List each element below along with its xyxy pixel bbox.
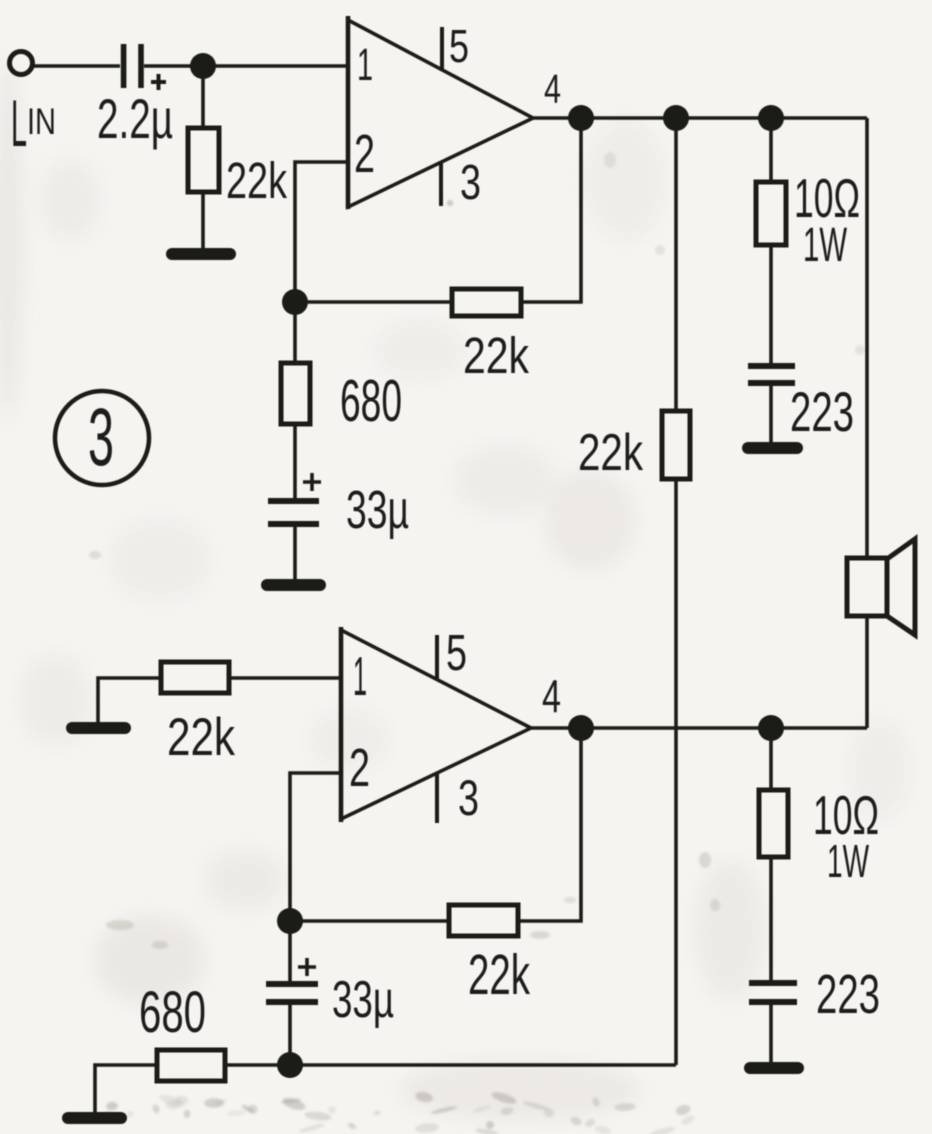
svg-text:22k: 22k bbox=[226, 152, 287, 209]
resistor R 10ohm 1W bottom bbox=[759, 790, 788, 857]
plus sign of 2.2u bbox=[151, 74, 166, 90]
svg-text:3: 3 bbox=[88, 392, 114, 483]
capacitor C 223 bottom bbox=[749, 980, 797, 1005]
vertical R 22k branch wire bottom bbox=[674, 479, 678, 1065]
ground 33u top bbox=[267, 579, 320, 591]
svg-text:1: 1 bbox=[353, 645, 367, 707]
wire ground to R22k input U2 bbox=[98, 678, 161, 722]
plus sign 33u bottom bbox=[298, 958, 316, 976]
wire node to C33u bottom bbox=[288, 921, 292, 982]
wire C33u to bottom node bbox=[288, 1005, 292, 1065]
pin 3 stub U1 bbox=[439, 162, 443, 206]
svg-text:33µ: 33µ bbox=[346, 480, 409, 540]
svg-text:680: 680 bbox=[340, 368, 402, 434]
wire 10ohm to C223 bbox=[769, 245, 773, 364]
wire node down to R 22k bbox=[201, 66, 205, 128]
svg-text:L: L bbox=[11, 86, 27, 160]
node C feedback bottom bbox=[277, 908, 303, 934]
node 22k branch top bbox=[663, 105, 689, 131]
wire speaker to bottom rail bbox=[865, 616, 869, 728]
svg-text:33µ: 33µ bbox=[332, 971, 394, 1029]
node B feedback top bbox=[282, 289, 308, 315]
wire pin2 U2 bbox=[290, 773, 341, 921]
wire R22k to pin1 U2 bbox=[229, 676, 341, 680]
right rail wire to speaker bbox=[865, 118, 869, 558]
capacitor C 2.2u bbox=[121, 44, 144, 88]
capacitor C 223 top bbox=[748, 363, 795, 386]
op-amp U1 bbox=[348, 20, 533, 207]
capacitor C 33u bottom bbox=[266, 981, 318, 1005]
svg-text:5: 5 bbox=[446, 624, 467, 681]
svg-text:4: 4 bbox=[544, 66, 561, 112]
svg-text:2: 2 bbox=[354, 124, 375, 184]
node 10ohm branch bottom bbox=[758, 715, 784, 741]
resistor R 22k vertical bbox=[662, 411, 690, 479]
wire C223 to ground bbox=[769, 386, 773, 444]
label LIN bbox=[11, 86, 56, 160]
ground 680 bottom bbox=[68, 1112, 121, 1124]
node D bottom bbox=[277, 1052, 303, 1078]
resistor R 22k feedback U2 bbox=[449, 905, 518, 936]
resistor R 22k input top bbox=[188, 128, 219, 192]
speaker LS bbox=[847, 558, 887, 616]
svg-text:IN: IN bbox=[27, 101, 56, 142]
figure number circle 3 bbox=[55, 391, 149, 485]
svg-text:3: 3 bbox=[458, 770, 479, 826]
wire ground to R680 bottom bbox=[95, 1065, 157, 1112]
svg-text:5: 5 bbox=[449, 20, 469, 72]
svg-text:22k: 22k bbox=[578, 424, 644, 482]
resistor R 680 top bbox=[281, 363, 310, 424]
wire capacitor to op-amp pin 1 bbox=[144, 64, 348, 68]
ground C223 top bbox=[748, 442, 797, 454]
capacitor C 33u top bbox=[268, 498, 319, 527]
ground C223 bottom bbox=[750, 1062, 798, 1074]
svg-text:2.2µ: 2.2µ bbox=[97, 87, 173, 150]
svg-text:22k: 22k bbox=[167, 708, 235, 767]
wire feedback to node bbox=[295, 300, 452, 304]
wire C223 to ground bottom bbox=[769, 1005, 773, 1062]
svg-text:4: 4 bbox=[542, 670, 561, 722]
output wire U1 bbox=[533, 116, 867, 120]
node 10ohm branch top bbox=[758, 105, 784, 131]
ground input U2 bbox=[72, 722, 125, 734]
svg-text:1W: 1W bbox=[827, 835, 869, 887]
output wire U2 bbox=[531, 726, 867, 730]
svg-text:2: 2 bbox=[349, 738, 370, 798]
input terminal LIN bbox=[10, 52, 33, 75]
pin 5 stub U2 bbox=[435, 635, 439, 679]
pin 3 stub U2 bbox=[435, 773, 439, 823]
node A input bbox=[190, 53, 216, 79]
node output U1 bbox=[568, 105, 594, 131]
svg-text:1W: 1W bbox=[803, 219, 847, 272]
svg-text:22k: 22k bbox=[463, 327, 529, 384]
resistor R 10ohm 1W top bbox=[756, 182, 786, 245]
svg-text:223: 223 bbox=[816, 963, 880, 1025]
pin 5 stub U1 bbox=[440, 27, 444, 71]
svg-text:223: 223 bbox=[790, 380, 854, 443]
wire R to ground bbox=[201, 192, 205, 250]
plus sign 33u top bbox=[303, 473, 321, 491]
node output U2 bbox=[568, 715, 594, 741]
resistor R 22k input U2 bbox=[161, 662, 229, 693]
op-amp U2 bbox=[341, 630, 531, 819]
feedback wire U1 bbox=[521, 118, 581, 302]
wire input to capacitor bbox=[33, 64, 120, 68]
bottom wire R680 to 22k rail bbox=[225, 1063, 676, 1067]
wire feedback to node U2 bbox=[290, 919, 449, 923]
resistor R 22k feedback top bbox=[452, 289, 521, 316]
wire top node to 10ohm bbox=[769, 118, 773, 182]
wire pin2 U1 bbox=[295, 162, 348, 302]
svg-text:3: 3 bbox=[460, 156, 481, 210]
feedback wire U2 bbox=[518, 728, 581, 921]
wire node to R680 bbox=[293, 302, 297, 363]
wire R680 to C33u bbox=[293, 424, 297, 499]
wire C33u to ground bbox=[293, 527, 297, 581]
svg-text:680: 680 bbox=[139, 980, 206, 1045]
resistor R 680 bottom bbox=[157, 1050, 225, 1081]
svg-text:22k: 22k bbox=[468, 943, 530, 1007]
svg-text:1: 1 bbox=[357, 39, 373, 90]
vertical R 22k branch wire top bbox=[674, 118, 678, 411]
wire bottom node to 10ohm bottom bbox=[769, 728, 773, 790]
ground bbox=[172, 248, 230, 260]
wire 10ohm to C223 bottom bbox=[769, 857, 773, 981]
